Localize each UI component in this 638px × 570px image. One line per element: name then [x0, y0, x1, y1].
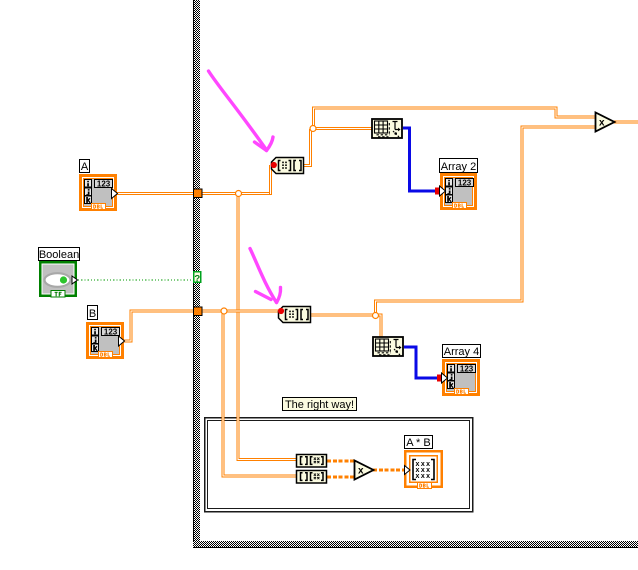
wire: junction up along top to multiply top input — [314, 108, 597, 130]
wire: A output to Index Array 1 (through tunnel, junction) — [117, 192, 272, 195]
Index Array node 1 — [272, 158, 304, 174]
svg-text:123: 123 — [104, 327, 118, 336]
wire: Index Array 2 output to junction — [310, 314, 376, 317]
svg-text:123: 123 — [458, 178, 472, 187]
label Boolean — [39, 248, 80, 262]
svg-text:A: A — [81, 161, 89, 173]
wire: A junction down to Array To Matrix 1 — [238, 194, 297, 460]
array control A — [79, 174, 118, 211]
svg-text:The right way!: The right way! — [285, 399, 354, 411]
svg-text:Array 4: Array 4 — [444, 346, 479, 358]
matrix indicator A*B — [404, 450, 443, 489]
wire junction (B) — [221, 308, 227, 314]
coercion dot (Index Array 1 input) — [271, 162, 277, 168]
label B — [88, 306, 98, 321]
svg-text:?: ? — [194, 273, 200, 284]
svg-text:Boolean: Boolean — [39, 249, 79, 261]
coercion dot (Index Array 2 input) — [278, 308, 284, 314]
svg-text:A * B: A * B — [406, 437, 430, 449]
svg-text:x: x — [599, 118, 605, 129]
Transpose 2D Array node 1 — [372, 119, 402, 138]
svg-text:x: x — [358, 466, 364, 477]
case selector tunnel ? — [193, 271, 202, 284]
svg-text:xxx: xxx — [416, 473, 432, 480]
Array To Matrix node 2 — [297, 471, 327, 484]
wire: junction into Transpose 2 — [375, 315, 381, 338]
pink annotation arrow 1 — [209, 71, 274, 151]
tunnel (B wire) — [193, 307, 203, 317]
tunnel (A wire) — [193, 189, 203, 199]
wire: Index Array 1 output up to junction — [304, 129, 311, 166]
pink annotation arrow 2 — [250, 249, 281, 303]
matrix wire: multiply output to A*B indicator — [373, 468, 406, 471]
multiply node (top) — [596, 113, 615, 132]
Transpose 2D Array node 2 — [373, 337, 403, 356]
matrix wire: ArrayToMatrix 1 to multiply — [327, 459, 356, 462]
label Array 2 — [440, 159, 478, 174]
svg-text:B: B — [89, 308, 96, 320]
label A — [80, 160, 90, 174]
multiply node (bottom, matrix) — [355, 461, 374, 480]
blue wire: Transpose 1 to Array 2 — [403, 128, 438, 191]
svg-text:Array 2: Array 2 — [441, 161, 476, 173]
label Array 4 — [443, 345, 481, 359]
wire: B output up, through tunnel, to Index Array 2 — [124, 311, 280, 341]
label The right way! — [283, 398, 357, 412]
wire: junction right to Transpose 1 — [311, 127, 372, 130]
wire: multiply output to right edge — [614, 121, 638, 124]
wire: B junction down to Array To Matrix 2 — [223, 312, 297, 476]
Array To Matrix node 1 — [297, 455, 327, 468]
input arrow + coercion (Array 4) — [437, 373, 448, 383]
matrix wire: ArrayToMatrix 2 to multiply — [327, 475, 356, 478]
input arrow + coercion (Array 2) — [435, 186, 446, 196]
wire junction (index 1 out) — [310, 126, 316, 132]
boolean control (slide switch) — [39, 261, 78, 298]
array control B — [86, 322, 125, 359]
wire: junction up and right, up to multiply bottom input — [376, 127, 597, 317]
wire junction (index 2 out) — [373, 313, 379, 319]
blue wire: Transpose 2 to Array 4 — [404, 347, 440, 378]
boolean wire (green dotted) — [78, 279, 193, 281]
wire junction (A) — [236, 191, 242, 197]
svg-text:123: 123 — [97, 179, 111, 188]
svg-text:123: 123 — [460, 364, 474, 373]
structure border: left edge (dithered) — [193, 0, 200, 548]
array indicator Array 2 — [440, 173, 477, 210]
Index Array node 2 — [279, 307, 311, 323]
decoration frame around The right way! section — [205, 418, 473, 512]
structure border: bottom edge (dithered) — [193, 541, 638, 548]
array indicator Array 4 — [442, 359, 480, 396]
label A * B — [405, 436, 433, 450]
